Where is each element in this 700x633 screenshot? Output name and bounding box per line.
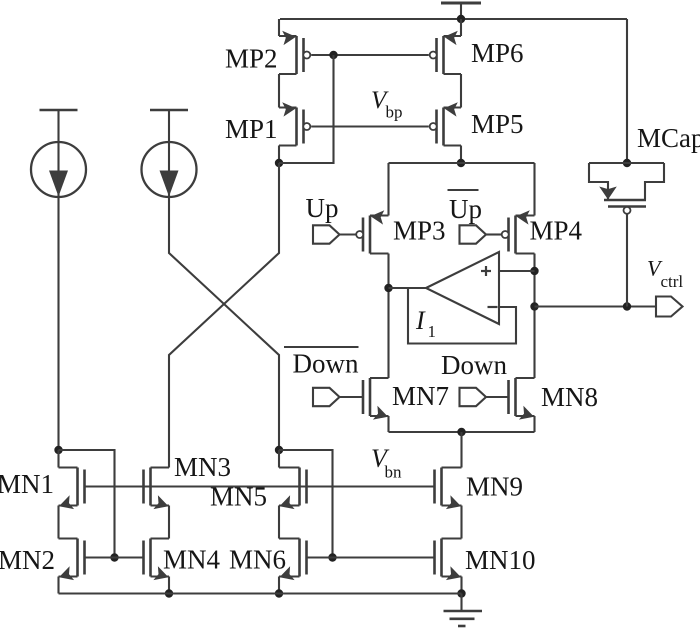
svg-text:I: I: [415, 306, 426, 335]
svg-text:MN3: MN3: [174, 452, 231, 482]
svg-text:MN5: MN5: [210, 482, 267, 512]
svg-text:bn: bn: [385, 463, 403, 482]
svg-text:MP3: MP3: [393, 216, 446, 246]
svg-text:Down: Down: [293, 349, 359, 379]
svg-text:MP4: MP4: [530, 216, 583, 246]
svg-text:MP2: MP2: [225, 44, 278, 74]
svg-text:MN10: MN10: [465, 545, 536, 575]
svg-text:MN8: MN8: [541, 382, 598, 412]
svg-text:MN2: MN2: [0, 545, 55, 575]
svg-text:MN9: MN9: [466, 472, 523, 502]
svg-text:MN6: MN6: [229, 545, 286, 575]
svg-text:MN1: MN1: [0, 469, 54, 499]
svg-text:ctrl: ctrl: [661, 272, 684, 291]
svg-text:MP5: MP5: [471, 109, 524, 139]
svg-text:Up: Up: [449, 194, 482, 224]
svg-text:bp: bp: [386, 103, 403, 122]
svg-text:Down: Down: [441, 350, 507, 380]
svg-text:MP1: MP1: [225, 114, 278, 144]
svg-text:MCap: MCap: [637, 123, 700, 153]
svg-text:MP6: MP6: [471, 38, 524, 68]
svg-text:MN7: MN7: [392, 381, 449, 411]
svg-text:Up: Up: [306, 193, 339, 223]
svg-text:1: 1: [428, 322, 437, 341]
svg-text:MN4: MN4: [163, 545, 221, 575]
